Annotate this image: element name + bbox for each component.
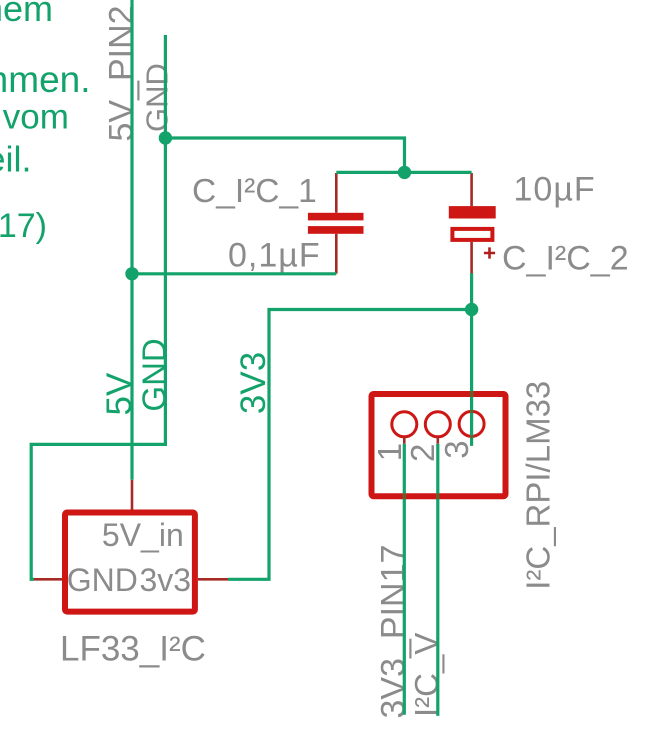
svg-text:5V_in: 5V_in	[102, 517, 184, 553]
svg-text:nem: nem	[0, 0, 53, 29]
svg-text:LF33_I²C: LF33_I²C	[60, 629, 206, 668]
svg-text:3v3: 3v3	[140, 562, 192, 598]
svg-text:3: 3	[438, 440, 475, 458]
svg-text:3V3: 3V3	[234, 352, 273, 414]
svg-text:C_I²C_2: C_I²C_2	[502, 239, 629, 277]
svg-text:17): 17)	[0, 207, 47, 245]
svg-text:mmen.: mmen.	[0, 59, 91, 100]
svg-text:5V_PIN2: 5V_PIN2	[103, 5, 141, 141]
svg-text:GND: GND	[140, 63, 175, 132]
svg-text:vom: vom	[3, 97, 69, 136]
svg-text:I²C_RPI/LM33: I²C_RPI/LM33	[520, 381, 557, 590]
svg-text:eil.: eil.	[0, 139, 32, 180]
svg-text:1: 1	[371, 443, 408, 461]
svg-text:2: 2	[404, 444, 441, 462]
svg-text:3V3_PIN17: 3V3_PIN17	[374, 545, 412, 719]
svg-text:0,1µF: 0,1µF	[228, 236, 321, 274]
svg-text:C_I²C_1: C_I²C_1	[192, 173, 317, 210]
svg-text:GND: GND	[67, 562, 138, 598]
svg-text:10µF: 10µF	[514, 170, 596, 208]
